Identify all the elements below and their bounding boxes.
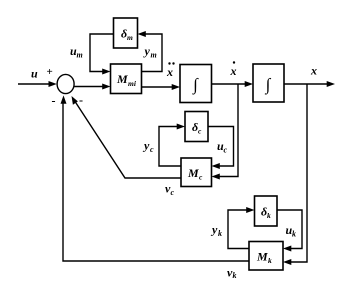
wire integrator2 output x (284, 81, 335, 87)
block M_mi (111, 64, 142, 94)
wire u_c feedback (208, 127, 234, 170)
wire x branch to M_k (283, 84, 307, 265)
svg-text:k: k (267, 211, 271, 220)
summing junction (57, 74, 74, 93)
svg-text:k: k (233, 271, 237, 278)
wire y_m feedback (138, 31, 163, 72)
svg-text:c: c (150, 145, 154, 154)
svg-text:mi: mi (128, 79, 137, 88)
block delta_m (114, 18, 138, 48)
wire y_k feedback (228, 207, 255, 249)
integrator 1 (180, 65, 212, 103)
svg-text:M: M (187, 166, 199, 180)
wire y_c feedback (159, 124, 185, 167)
svg-text:k: k (268, 256, 272, 265)
block M_c (181, 158, 212, 187)
svg-text:M: M (256, 250, 268, 264)
label y_k (210, 223, 222, 239)
label xddot (166, 62, 175, 79)
label xdot (230, 61, 237, 78)
svg-text:y: y (142, 139, 150, 153)
block M_k (249, 242, 283, 271)
wire u input (18, 81, 57, 87)
label u_c (217, 139, 228, 155)
svg-text:m: m (77, 51, 83, 60)
label v_k (227, 266, 237, 281)
block delta_c (185, 112, 208, 142)
wire integrator1 to integrator2 (212, 81, 254, 87)
svg-text:x: x (230, 64, 237, 78)
svg-text:y: y (143, 44, 151, 58)
wire v_c to sum (72, 96, 182, 178)
svg-text:c: c (224, 146, 228, 155)
svg-text:-: - (52, 94, 56, 108)
wire M_mi to integrator 1 (142, 84, 181, 90)
label y_c (142, 139, 154, 155)
label y_m (143, 44, 157, 60)
block delta_k (255, 196, 278, 226)
svg-text:k: k (292, 230, 296, 239)
svg-text:M: M (116, 72, 128, 86)
wire u_k feedback (277, 210, 302, 252)
svg-text:m: m (127, 33, 133, 42)
wire v_k to sum (61, 95, 250, 261)
svg-text:+: + (47, 66, 53, 78)
label v_c (165, 182, 175, 198)
svg-text:x: x (310, 64, 317, 78)
svg-text:u: u (31, 67, 38, 81)
label u_k (286, 223, 297, 239)
svg-text:-: - (79, 93, 83, 107)
integrator 2 (253, 64, 284, 102)
svg-text:m: m (151, 51, 157, 60)
wire u_m feedback (90, 34, 114, 75)
svg-text:y: y (210, 223, 218, 237)
svg-text:c: c (171, 188, 175, 197)
svg-text:k: k (218, 229, 222, 238)
svg-text:x: x (166, 65, 173, 79)
label u_m (70, 44, 83, 60)
wire xdot branch to M_c (212, 84, 239, 180)
wire sum to M_mi (74, 84, 110, 90)
